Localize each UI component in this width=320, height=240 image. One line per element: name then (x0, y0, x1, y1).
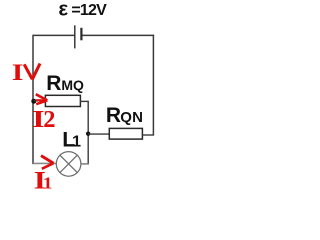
battery V1 short plate (80, 28, 82, 41)
svg-text:R: R (106, 104, 121, 127)
resistor RQN body (109, 128, 142, 139)
svg-text:QN: QN (120, 109, 143, 126)
wire top-right segment (81, 34, 154, 36)
svg-text:=12V: =12V (71, 2, 107, 19)
lamp L1 body (56, 152, 81, 177)
label RQN (106, 104, 143, 127)
wire node Q to RQN (88, 133, 109, 135)
label L1 (62, 127, 81, 151)
label I1 (red) (34, 167, 53, 194)
label epsilon = 12V (58, 0, 107, 21)
svg-text:I: I (12, 59, 23, 85)
svg-text:R: R (46, 72, 61, 95)
label RMQ (46, 72, 84, 95)
wire RQN right to right vertical (142, 134, 154, 136)
svg-text:2: 2 (43, 106, 55, 133)
svg-text:ε: ε (58, 0, 68, 21)
label I2 (red) (32, 106, 55, 133)
wire left vertical (32, 35, 34, 164)
node Q junction dot (86, 132, 90, 136)
arrow down (current I direction) (24, 64, 40, 80)
wire right vertical (152, 35, 154, 135)
wire from node M to RMQ (34, 100, 47, 102)
wire RMQ right to vertical (80, 100, 88, 102)
svg-text:MQ: MQ (61, 77, 84, 93)
wire top-left segment (33, 34, 75, 36)
wire mid vertical (RMQ/lamp branch) (87, 101, 89, 164)
resistor RMQ body (45, 95, 80, 106)
wire lamp right to mid vertical (81, 163, 89, 165)
svg-text:1: 1 (43, 174, 52, 193)
battery V1 long plate (74, 25, 76, 48)
wire bottom-left horizontal (33, 162, 56, 164)
arrow I1 into lamp (red) (41, 156, 54, 169)
node M junction dot (31, 99, 36, 104)
svg-text:1: 1 (72, 133, 81, 150)
arrow I2 into RMQ (red) (36, 94, 48, 104)
